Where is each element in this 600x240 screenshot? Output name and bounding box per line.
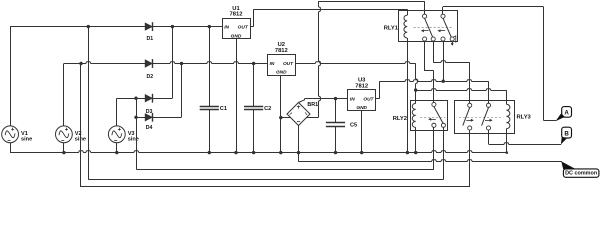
svg-text:GND: GND [231,33,242,39]
svg-text:C1: C1 [220,106,227,112]
svg-text:RLY1: RLY1 [384,25,399,31]
svg-text:BR1: BR1 [307,102,318,108]
svg-text:OUT: OUT [363,96,374,102]
svg-text:D4: D4 [146,125,153,131]
svg-text:IN: IN [270,61,275,67]
svg-text:D3: D3 [146,109,153,115]
svg-text:7812: 7812 [355,84,368,90]
svg-text:D1: D1 [147,36,154,42]
svg-text:DC common: DC common [565,171,597,177]
svg-text:IN: IN [350,96,355,102]
svg-text:B: B [564,130,569,137]
svg-text:OUT: OUT [238,25,249,31]
svg-text:GND: GND [356,105,367,111]
svg-text:7812: 7812 [275,48,288,54]
svg-text:RLY2: RLY2 [393,116,407,122]
svg-text:RLY3: RLY3 [517,114,532,120]
svg-text:IN: IN [224,25,229,31]
svg-text:OUT: OUT [283,61,294,67]
svg-text:A: A [564,110,569,117]
svg-text:C2: C2 [264,106,271,112]
svg-text:sine: sine [21,137,32,143]
svg-text:C5: C5 [350,123,357,129]
svg-text:7812: 7812 [230,12,243,18]
svg-text:GND: GND [276,70,287,76]
svg-text:sine: sine [128,137,139,143]
svg-text:D2: D2 [147,74,154,80]
